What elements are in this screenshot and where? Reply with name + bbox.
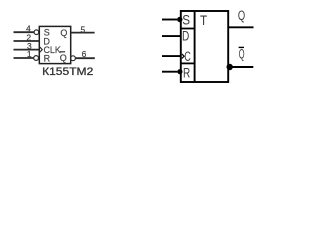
svg-text:C: C	[184, 49, 191, 64]
svg-text:6: 6	[82, 49, 87, 59]
svg-text:R: R	[44, 54, 51, 64]
svg-text:R: R	[183, 65, 190, 80]
svg-text:T: T	[200, 13, 207, 28]
svg-text:5: 5	[81, 24, 86, 34]
svg-text:К155ТМ2: К155ТМ2	[42, 66, 93, 78]
svg-text:1: 1	[27, 49, 32, 59]
svg-text:Q: Q	[60, 53, 67, 63]
svg-text:D: D	[182, 28, 189, 43]
svg-text:Q: Q	[60, 28, 67, 38]
svg-text:S: S	[182, 12, 190, 27]
svg-text:Q: Q	[238, 8, 245, 23]
svg-text:Q: Q	[239, 46, 245, 61]
